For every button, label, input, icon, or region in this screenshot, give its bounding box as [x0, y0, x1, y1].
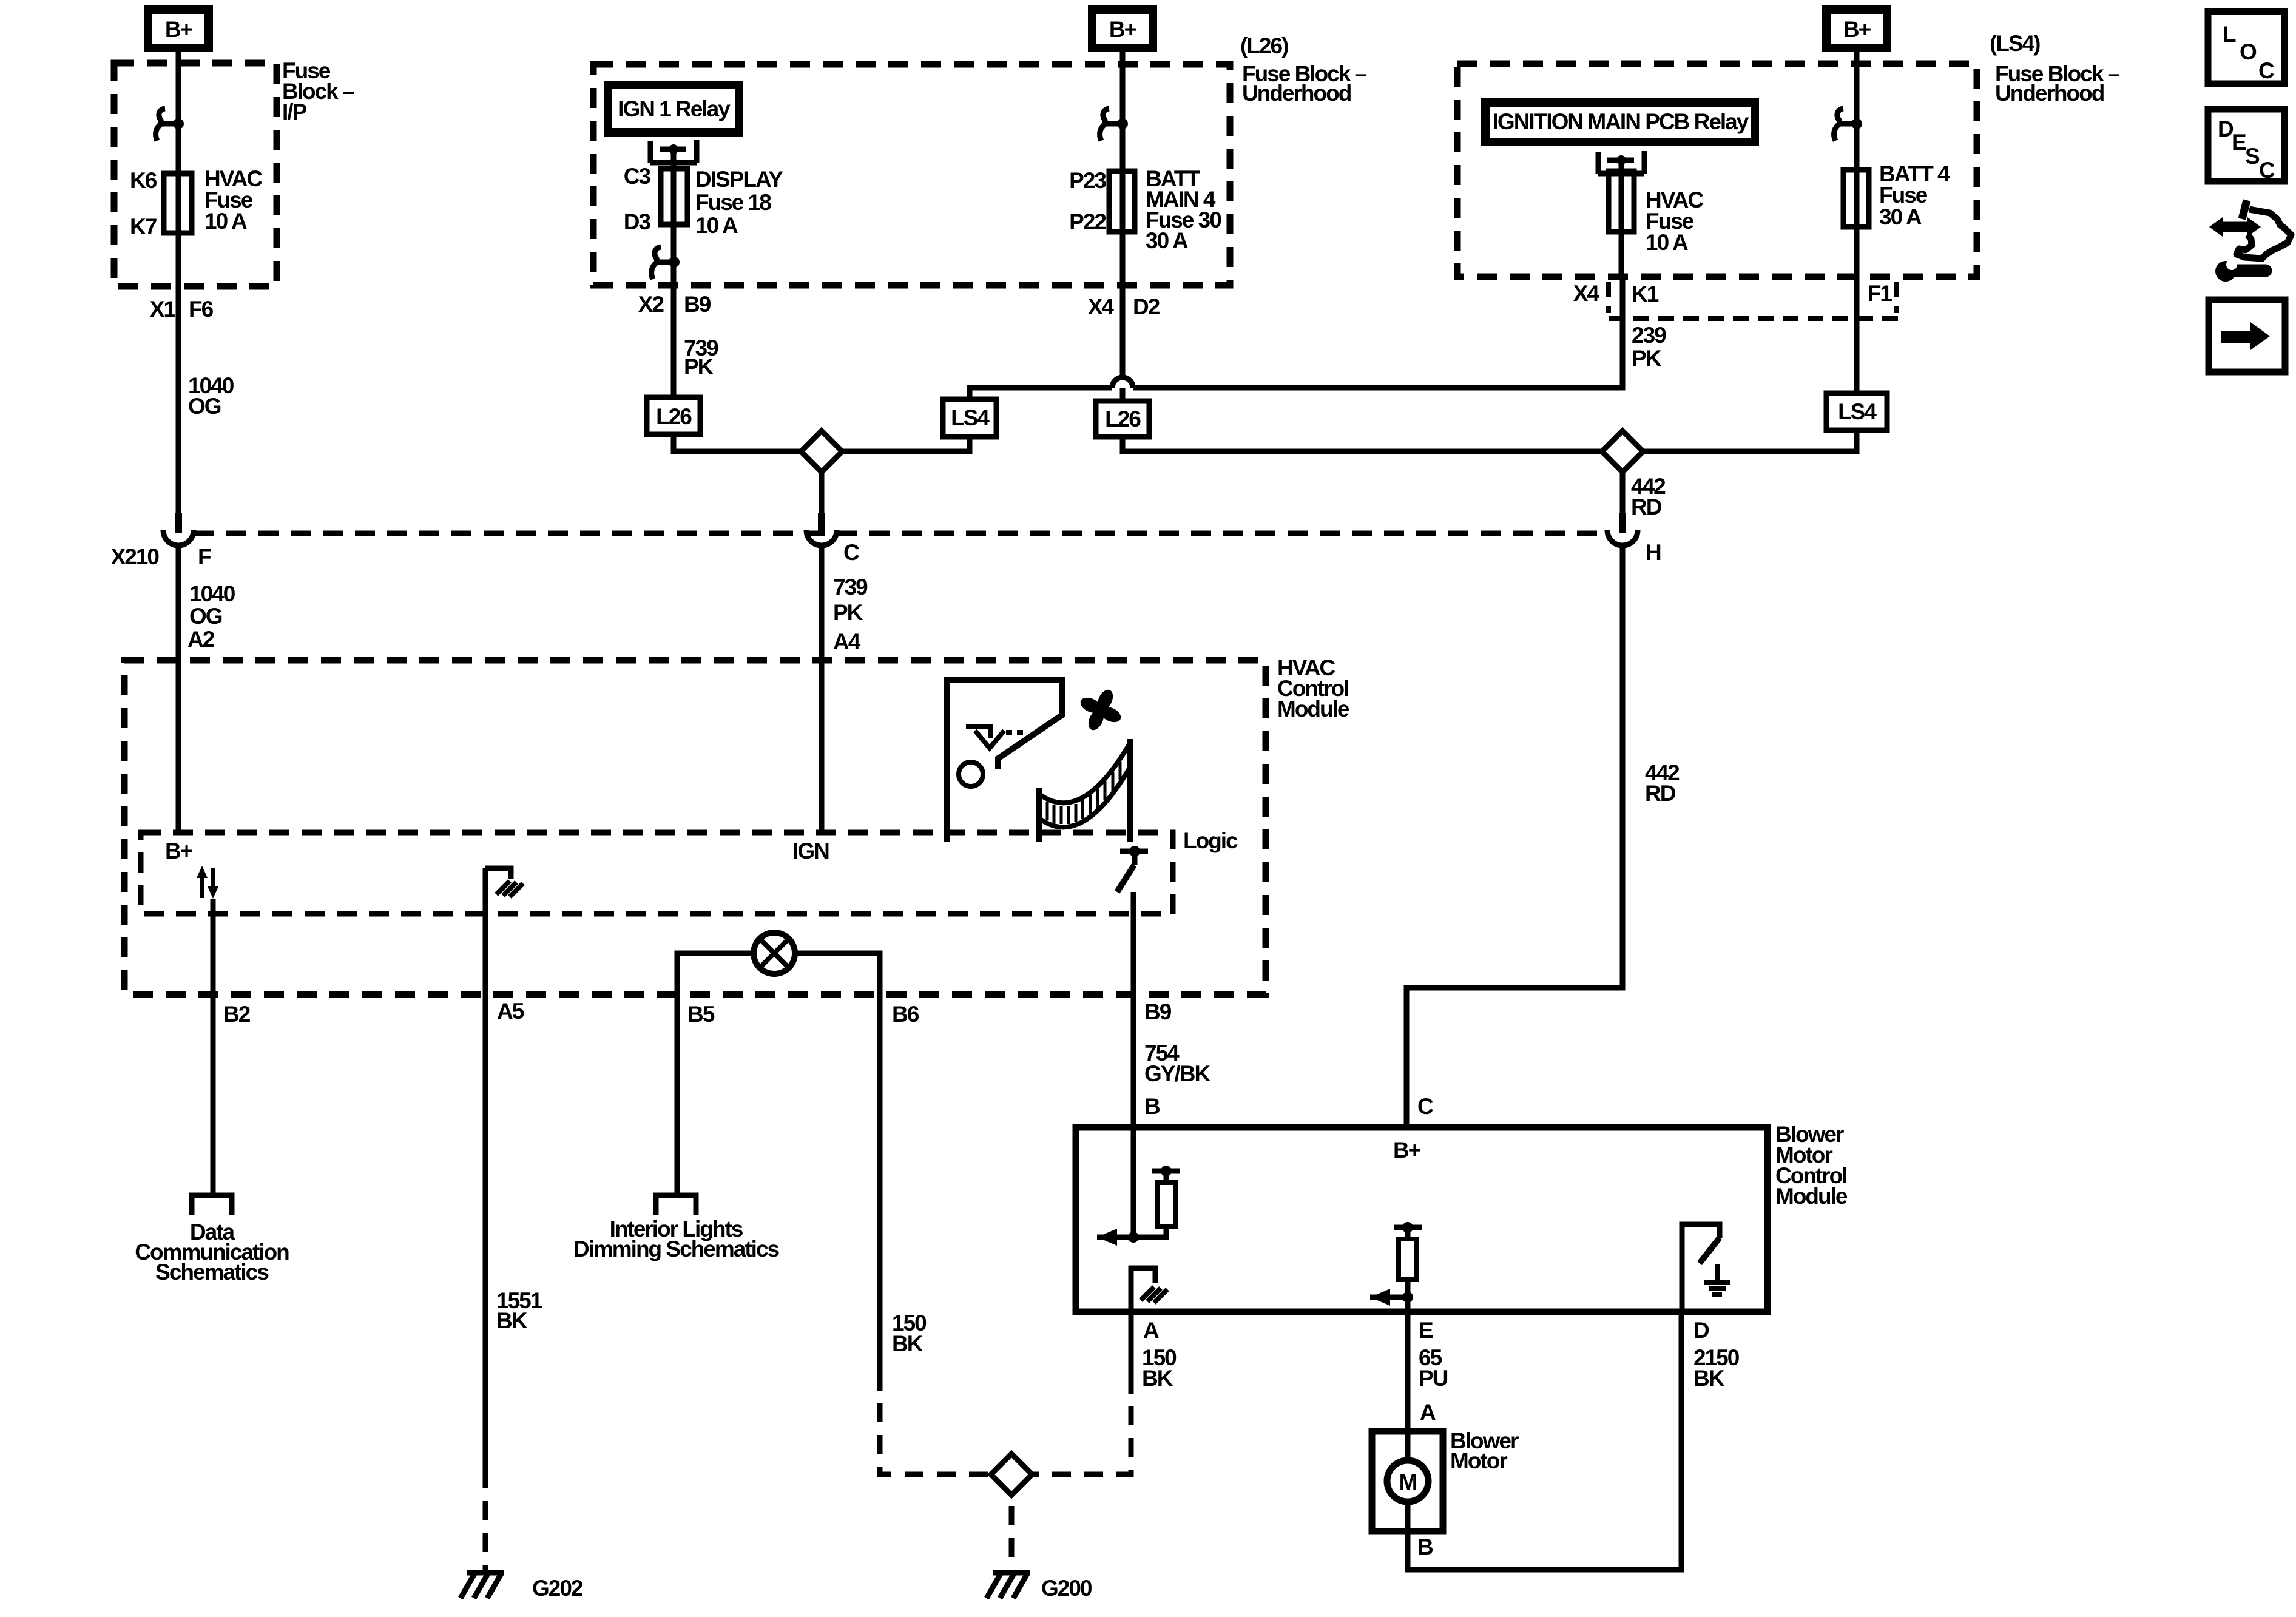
svg-text:F: F: [198, 544, 211, 569]
wire B+1 to HVAC fuse: [176, 52, 181, 233]
svg-text:BK: BK: [892, 1331, 923, 1356]
svg-text:A2: A2: [187, 627, 215, 652]
ground G202: [461, 1573, 504, 1598]
svg-text:PK: PK: [833, 600, 863, 625]
dashed wire B6 to G200 splice: [880, 1403, 991, 1474]
net tag LS4 #2: [1826, 393, 1887, 430]
svg-text:PK: PK: [1632, 346, 1662, 371]
svg-text:A: A: [1420, 1400, 1436, 1425]
IGNITION MAIN PCB Relay box: [1481, 98, 1759, 146]
net tag LS4 #1: [943, 399, 996, 437]
svg-text:B: B: [1417, 1534, 1433, 1559]
svg-text:(L26): (L26): [1240, 33, 1288, 58]
HVAC Fuse 10A (I/P) fuse body: [164, 174, 192, 233]
BATT 4 Fuse 30A fuse body: [1843, 170, 1869, 227]
svg-text:OG: OG: [188, 394, 221, 419]
IGNITION MAIN PCB Relay coil contact: [1598, 151, 1644, 174]
svg-text:IGN: IGN: [792, 839, 829, 863]
svg-text:I/P: I/P: [282, 100, 307, 124]
Fuse Block Underhood label (L26): [1242, 61, 1367, 106]
svg-text:P22: P22: [1069, 209, 1106, 234]
bus tap curl below DISPLAY fuse: [652, 247, 680, 279]
Interior Lights Dimming Schematics label: [573, 1217, 780, 1261]
svg-text:K7: K7: [130, 214, 157, 239]
svg-text:C3: C3: [624, 164, 651, 189]
wire diamond S2 to LS4 tag #2: [1643, 430, 1857, 451]
X210 harness dashed line: [194, 531, 1607, 536]
B+ battery feed B+2: [1088, 5, 1157, 52]
wire B6 down: [877, 994, 883, 1391]
svg-text:M: M: [1399, 1470, 1417, 1494]
wire internal ground to A5: [483, 868, 488, 994]
svg-text:X1: X1: [150, 297, 176, 322]
svg-text:B6: B6: [892, 1002, 919, 1027]
wire coil to HVAC fuse (LS4): [1619, 160, 1624, 232]
wire splice S1 down to connector C: [819, 472, 825, 513]
wire L26 #2 to splice diamond S2: [1123, 437, 1602, 451]
svg-text:OG: OG: [189, 604, 222, 629]
svg-text:D2: D2: [1133, 294, 1160, 319]
Fuse Block Underhood (L26) dashed box: [593, 64, 1230, 285]
svg-text:O: O: [2240, 39, 2257, 64]
svg-text:BK: BK: [1142, 1366, 1173, 1391]
wire label 442 RD (upper): [1631, 474, 1666, 519]
svg-text:B+: B+: [1393, 1138, 1421, 1163]
splice diamond S2: [1602, 431, 1643, 472]
HVAC Fuse value label (LS4): [1646, 187, 1703, 255]
svg-text:Module: Module: [1775, 1184, 1848, 1209]
svg-text:239: 239: [1632, 323, 1666, 348]
ground G200: [987, 1573, 1030, 1598]
Fuse Block Underhood (LS4) dashed box: [1457, 64, 1977, 277]
BATT MAIN 4 Fuse 30 fuse body: [1109, 171, 1135, 232]
wire label 150 BK (B6): [892, 1311, 927, 1356]
svg-text:739: 739: [833, 575, 868, 599]
Fuse Block - I/P dashed box: [114, 63, 277, 286]
B+ battery feed B+3: [1822, 5, 1891, 52]
blower switch inside logic box: [1117, 846, 1148, 892]
svg-text:GY/BK: GY/BK: [1144, 1061, 1210, 1086]
svg-text:Fuse: Fuse: [1879, 183, 1928, 208]
svg-text:K6: K6: [130, 168, 157, 193]
wire diamond to LS4 tag: [842, 437, 970, 451]
svg-text:A5: A5: [497, 999, 524, 1024]
svg-text:L26: L26: [656, 404, 692, 429]
svg-text:(LS4): (LS4): [1990, 31, 2040, 56]
svg-text:30 A: 30 A: [1879, 204, 1922, 229]
svg-text:C: C: [1417, 1094, 1433, 1119]
svg-text:Logic: Logic: [1183, 828, 1238, 853]
Blower Motor Control Module box: [1076, 1127, 1768, 1312]
wire B+2 down: [1120, 52, 1126, 232]
svg-text:LS4: LS4: [951, 405, 990, 430]
wire L26 tag to splice diamond: [674, 434, 801, 451]
wire hop bump on D2 wire: [1112, 377, 1133, 388]
svg-text:E: E: [2232, 130, 2246, 155]
inline connector H at X210: [1607, 513, 1638, 545]
svg-text:K1: K1: [1632, 282, 1659, 306]
wire E branch to box bottom: [1405, 1297, 1411, 1312]
BATT 4 value label: [1879, 161, 1950, 229]
Blower Motor box: [1372, 1431, 1443, 1531]
svg-text:B5: B5: [687, 1002, 715, 1027]
Data Communication Schematics label: [135, 1220, 289, 1284]
svg-text:B9: B9: [1144, 999, 1172, 1024]
dashed wire A to G200 splice: [1032, 1406, 1131, 1474]
inline connector F at X210: [163, 513, 194, 545]
backlight lamp symbol: [754, 933, 795, 974]
temperature gauge icon: [1039, 739, 1130, 842]
wire blower motor B to BMCM D: [1408, 1312, 1681, 1570]
net tag L26 #1: [647, 397, 700, 434]
svg-text:X2: X2: [638, 292, 664, 317]
svg-text:PK: PK: [684, 354, 714, 379]
HVAC Fuse value label: [204, 166, 262, 234]
svg-text:Module: Module: [1277, 697, 1349, 721]
motor drive resistor with tap (E branch): [1370, 1222, 1422, 1306]
Logic dashed sub-box: [141, 832, 1173, 914]
wire label 150 BK (A): [1142, 1345, 1177, 1391]
speed control resistor with tap (B branch): [1097, 1166, 1180, 1246]
bidirectional data arrows: [197, 866, 218, 899]
svg-text:F6: F6: [189, 297, 214, 322]
wire A down: [1129, 1312, 1134, 1394]
svg-text:G200: G200: [1041, 1576, 1092, 1601]
svg-text:10 A: 10 A: [204, 209, 247, 234]
svg-text:BK: BK: [496, 1308, 528, 1333]
wire D2 down with hop to L26 tag: [1120, 285, 1126, 401]
wire A5 to G202: [483, 994, 488, 1488]
svg-text:H: H: [1646, 540, 1661, 565]
internal chassis ground (A branch): [1131, 1268, 1167, 1312]
wire label 1040 OG (lower): [189, 581, 235, 629]
svg-text:G202: G202: [532, 1576, 583, 1601]
wire label 1551 BK: [496, 1288, 542, 1333]
wire label 442 RD (lower): [1645, 760, 1680, 806]
BATT MAIN 4 value label: [1146, 166, 1221, 253]
wire B+3 down: [1854, 52, 1860, 227]
svg-text:L: L: [2223, 22, 2236, 47]
svg-text:10 A: 10 A: [695, 213, 738, 238]
dashed wire to G202: [483, 1501, 488, 1571]
wire label 2150 BK: [1693, 1345, 1740, 1391]
wire B into BMCM to speed control: [1131, 1127, 1136, 1237]
svg-text:1040: 1040: [189, 581, 235, 606]
svg-text:X210: X210: [111, 544, 160, 569]
IGN 1 Relay box: [604, 81, 743, 137]
Fuse Block Underhood label (LS4): [1995, 61, 2120, 106]
svg-text:A: A: [1143, 1318, 1159, 1343]
HVAC Control Module dashed box: [124, 660, 1266, 994]
wire LS4 tag up and right to K1: [970, 277, 1622, 399]
svg-text:B+: B+: [165, 839, 193, 863]
svg-text:Schematics: Schematics: [155, 1260, 269, 1284]
HVAC Fuse 10A (LS4) fuse body: [1609, 171, 1634, 232]
svg-text:IGN 1 Relay: IGN 1 Relay: [618, 96, 731, 121]
svg-text:B2: B2: [223, 1002, 251, 1027]
IGN 1 Relay coil contact: [650, 140, 697, 163]
svg-text:B9: B9: [684, 292, 711, 317]
svg-text:A4: A4: [833, 629, 861, 654]
off-page bracket interior lights: [656, 1195, 696, 1215]
motor symbol M: [1387, 1431, 1428, 1531]
dashed wire splice to G200 ground: [1009, 1506, 1015, 1571]
svg-text:LS4: LS4: [1838, 399, 1877, 424]
wire label 1040 OG: [188, 373, 234, 419]
DISPLAY Fuse 18 fuse body: [661, 169, 687, 224]
net tag L26 #2: [1096, 401, 1149, 437]
svg-text:Fuse 18: Fuse 18: [695, 190, 771, 215]
wire F to HVAC control module B+: [176, 547, 181, 832]
svg-text:F1: F1: [1868, 281, 1893, 306]
lamp wires to B5 and B6: [677, 953, 880, 994]
Blower Motor Control Module label: [1775, 1122, 1848, 1209]
legend icon LOC box: [2208, 12, 2284, 84]
wire label 739 PK: [684, 336, 718, 379]
inline connector C at X210: [806, 513, 837, 545]
wire label 754 GY/BK: [1144, 1041, 1210, 1086]
svg-text:30 A: 30 A: [1146, 228, 1188, 253]
HVAC Control Module label: [1277, 655, 1349, 721]
svg-text:D3: D3: [624, 209, 651, 234]
svg-text:Dimming Schematics: Dimming Schematics: [573, 1237, 780, 1261]
wire C to HVAC control module IGN: [819, 547, 825, 832]
wire 442 RD from H to blower motor control module C: [1406, 547, 1622, 1127]
DISPLAY Fuse value label: [695, 167, 783, 238]
svg-text:Underhood: Underhood: [1995, 81, 2104, 106]
svg-text:C: C: [843, 540, 859, 565]
wire label 65 PU: [1419, 1345, 1448, 1391]
wire HVAC fuse to K1: [1619, 232, 1624, 277]
svg-text:X4: X4: [1088, 294, 1115, 319]
bus tap curl above BATT MAIN 4 fuse: [1100, 109, 1128, 141]
svg-text:IGNITION MAIN PCB Relay: IGNITION MAIN PCB Relay: [1493, 109, 1749, 134]
svg-text:DISPLAY: DISPLAY: [695, 167, 783, 192]
svg-text:L26: L26: [1105, 407, 1141, 431]
svg-text:RD: RD: [1631, 495, 1662, 519]
svg-text:PU: PU: [1419, 1366, 1448, 1391]
svg-text:D: D: [1693, 1318, 1709, 1343]
B+ battery feed B+1: [144, 5, 213, 52]
svg-text:B: B: [1144, 1094, 1160, 1119]
connector X4 dashed outline: [1609, 282, 1900, 319]
wire splice S2 down to connector H: [1620, 472, 1626, 513]
off-page bracket data communication: [192, 1195, 232, 1215]
wire coil to DISPLAY fuse: [671, 149, 677, 224]
splice diamond G200: [991, 1454, 1032, 1495]
Blower Motor label: [1450, 1428, 1519, 1473]
wire label 739 PK (lower): [833, 575, 868, 625]
wire to L26 tag: [671, 286, 677, 397]
svg-text:Motor: Motor: [1450, 1448, 1507, 1473]
wire label 239 PK: [1632, 323, 1666, 371]
wire BATT 4 fuse to F1 and LS4 tag: [1854, 227, 1860, 393]
wire B9 to blower motor control module B: [1131, 892, 1136, 1127]
svg-text:E: E: [1419, 1318, 1433, 1343]
svg-text:RD: RD: [1645, 781, 1676, 806]
svg-text:C: C: [2258, 58, 2274, 83]
svg-text:P23: P23: [1069, 168, 1106, 193]
internal ground jog inside module: [485, 868, 523, 897]
legend icon arrow box: [2209, 300, 2285, 372]
fan icon: [1072, 681, 1130, 739]
splice diamond S1: [801, 431, 842, 472]
wire B2 from logic to data communication: [211, 899, 216, 1194]
wire B5 to interior lights: [675, 994, 680, 1194]
svg-text:S: S: [2245, 144, 2260, 169]
bus tap curl in I/P block: [156, 109, 184, 141]
svg-text:BK: BK: [1693, 1366, 1725, 1391]
svg-text:X4: X4: [1573, 281, 1600, 306]
legend icon DESC box: [2208, 109, 2284, 183]
svg-text:Underhood: Underhood: [1242, 81, 1351, 106]
wire hop of 239 PK over crossing: [1112, 377, 1133, 388]
wire E to blower motor: [1405, 1312, 1411, 1431]
mode door icon: [947, 680, 1062, 842]
Fuse Block - I/P label: [282, 58, 354, 124]
wire DISPLAY fuse down: [671, 224, 677, 286]
bus tap curl above BATT 4 fuse: [1834, 109, 1862, 141]
wire BATT MAIN 4 fuse to D2: [1120, 232, 1126, 285]
legend icon adjust hand with double arrow and wrench: [2209, 200, 2291, 282]
svg-text:10 A: 10 A: [1646, 230, 1688, 255]
svg-text:C: C: [2259, 158, 2275, 183]
high speed relay switch to ground (D branch): [1682, 1224, 1730, 1312]
wire fuse to connector X1/F6: [176, 233, 181, 513]
